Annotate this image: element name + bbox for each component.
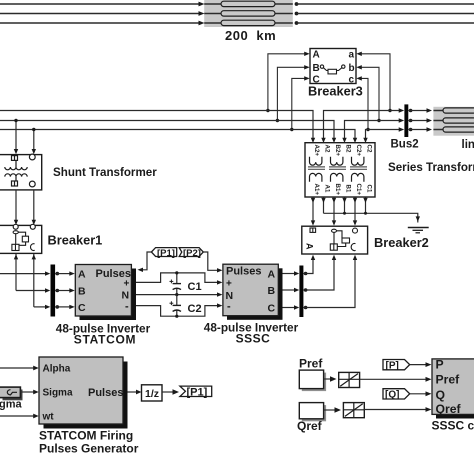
arrowhead below A1 (321, 198, 325, 203)
svg-text:Series Transformer: Series Transformer (388, 161, 474, 174)
wire Pref source to rate limiter (324, 378, 331, 380)
svg-text:+: + (226, 279, 232, 290)
bus bar left of STATCOM (51, 265, 56, 317)
svg-text:Alpha: Alpha (43, 364, 71, 375)
arrowhead into Breaker3 c (356, 76, 362, 80)
arrowhead below C1 (363, 198, 367, 203)
svg-text:A: A (78, 269, 86, 281)
wire B1 return to common (344, 197, 346, 213)
arrowhead into 200 km block port C (199, 21, 205, 26)
wire A1+ down to Breaker2 (312, 197, 314, 222)
wire DC neutral rail (136, 294, 218, 296)
arrowhead into shunt transformer C (32, 149, 36, 154)
svg-text:B1: B1 (345, 185, 352, 193)
junction dot Breaker3 B tap (276, 119, 279, 122)
wire sigma input (21, 391, 35, 393)
svg-text:A2+: A2+ (313, 145, 320, 157)
arrowhead into Breaker3 b (356, 65, 362, 69)
arrowhead into Breaker2 top C (353, 220, 357, 225)
node dot Bus2 line A (409, 109, 413, 113)
arrowhead into SSSC plus (217, 280, 223, 284)
svg-text:B: B (313, 63, 320, 74)
arrowhead into Breaker2 top B (332, 220, 336, 225)
arrowhead into Pref port (426, 377, 432, 382)
junction dot Breaker3 C tap (290, 128, 293, 131)
svg-text:Shunt Transformer: Shunt Transformer (53, 166, 157, 179)
block STATCOM Firing Pulses Generator (39, 357, 123, 424)
svg-text:Sigma: Sigma (43, 388, 73, 399)
wire 1/z to goto tag P1 (162, 391, 173, 393)
junction dot B1 on common (343, 212, 346, 215)
wire Pulses to 1/z (128, 391, 137, 393)
bus bar Bus2 (404, 104, 408, 137)
junction dot Breaker3 c tap (366, 128, 369, 131)
breaker Breaker3 body (310, 49, 356, 84)
arrowhead into 200 km block port B (199, 11, 205, 16)
wire wt input (0, 415, 34, 417)
arrowhead into 200 km block port A (199, 2, 205, 7)
svg-text:STATCOM: STATCOM (74, 332, 136, 346)
pill conductor C of right line block (443, 127, 474, 132)
junction dot C2 bottom (175, 315, 178, 318)
arrowhead up into Breaker2 bottom A (311, 255, 315, 260)
svg-text:C: C (268, 302, 276, 314)
Breaker2 internal switch symbol (330, 228, 357, 251)
svg-text:Qref: Qref (297, 419, 323, 433)
wire: phase B feeder into 200 km line (0, 13, 199, 15)
svg-text:Q: Q (436, 388, 445, 402)
drop shadow of SSSC control block (436, 363, 474, 419)
wire common neutral line to ground (324, 213, 418, 222)
wire alpha input (0, 367, 34, 369)
arrowhead into series transformer A2 (321, 138, 325, 143)
arrowhead into goto P1 (173, 389, 180, 394)
svg-text:A: A (305, 243, 315, 250)
arrowhead into SSSC minus (217, 303, 223, 307)
from tag [Q] (383, 389, 410, 401)
arrowhead into STATCOM Pulses (138, 268, 144, 272)
rate limiter 2 icon (343, 403, 364, 418)
svg-text:A: A (268, 269, 276, 281)
wire SSSC bar up to Breaker2 A (303, 259, 313, 274)
arrowhead up into Breaker2 bottom C (353, 255, 357, 260)
arrowhead into Qref port (426, 407, 432, 412)
drop shadow of 48-pulse Inverter SSSC (227, 268, 283, 320)
arrowhead into wt (33, 414, 39, 419)
shunt transformer winding row 1 (5, 167, 27, 170)
node dot Bus2 line B (409, 119, 413, 123)
source block Pref shadow (302, 373, 326, 392)
svg-text:200 km: 200 km (225, 28, 276, 43)
arrowhead into shunt transformer B (14, 149, 18, 154)
source block Qref (299, 403, 323, 419)
svg-text:b: b (349, 63, 355, 74)
arrowhead into Alpha (33, 366, 39, 371)
wire C1 return to common (365, 197, 367, 213)
svg-text:Breaker2: Breaker2 (374, 235, 429, 250)
shunt transformer winding lead top (15, 161, 17, 167)
arrowhead into series transformer A2+ (311, 138, 315, 143)
svg-text:SSSC co: SSSC co (432, 419, 474, 433)
wire Breaker3 b to line2 right (361, 67, 379, 120)
wire tap line2 down to shunt transformer port B (15, 121, 17, 151)
svg-text:-: - (125, 301, 129, 313)
arrowhead into series transformer C2 (363, 138, 367, 143)
capacitor C1 plates (173, 283, 181, 285)
from tag [P] (383, 360, 410, 372)
svg-text:SSSC: SSSC (236, 332, 271, 346)
svg-text:Breaker3: Breaker3 (308, 84, 363, 99)
arrowhead line C into left bus bar (45, 305, 50, 309)
wire bus line A into STATCOM bus (0, 273, 46, 275)
svg-text:line: line (462, 139, 474, 151)
Breaker1 port circle top-left (13, 224, 18, 229)
arrowhead SSSC A into bar (294, 271, 299, 275)
from tag [P1] (151, 248, 176, 259)
svg-text:C: C (78, 302, 86, 314)
svg-text:STATCOM Firing: STATCOM Firing (39, 429, 133, 443)
series transformer phase B windings and core (329, 157, 346, 182)
node dot on line C right of 200km block (295, 21, 299, 25)
junction dot on N rail (175, 293, 178, 296)
arrowhead SSSC B into bar (294, 288, 299, 292)
wire: phase C feeder into 200 km line (0, 22, 199, 24)
wire line3 right segment from C2 to Bus2 (366, 130, 400, 139)
svg-text:B: B (78, 286, 86, 298)
wire Bus2 to line block phase B (408, 120, 427, 122)
arrowhead into rate limiter 1 (330, 376, 337, 381)
arrowhead into series transformer C2+ (353, 138, 357, 143)
wire Breaker3 C to line3 (292, 78, 305, 129)
wire Breaker3 a to line1 right (361, 54, 390, 111)
wire Breaker3 B to line2 (277, 67, 305, 120)
wire through 200km block phase A (204, 3, 293, 5)
arrowhead into series transformer B2 (342, 138, 346, 143)
svg-text:A2: A2 (324, 145, 331, 153)
arrowhead into right line block B (427, 118, 433, 122)
wire bus bar to STATCOM A (55, 273, 70, 275)
breaker Breaker1 body (0, 225, 42, 253)
pill conductor A of right line block (443, 108, 474, 113)
svg-text:Pref: Pref (436, 373, 461, 387)
wire Qref source to rate limiter 2 (324, 409, 335, 411)
svg-text:P: P (436, 358, 444, 372)
block rate limiter 1 (339, 372, 360, 387)
Breaker3 internal switch symbol (320, 65, 345, 74)
arrowhead line A into left bus bar (45, 271, 50, 275)
arrowhead line B into left bus bar (45, 288, 50, 292)
wire line2 right segment from B2 to Bus2 (345, 121, 400, 139)
arrowhead into P port (426, 362, 432, 367)
series transformer top port labels A2+ A2 B2+ B2 C2+ C2 (rotated) (313, 145, 373, 157)
arrowhead up into Breaker1 bottom left (14, 254, 18, 259)
block 48-pulse Inverter SSSC (223, 264, 278, 316)
block SSSC control (432, 359, 474, 415)
svg-text:A: A (313, 50, 320, 61)
wire through 200km block phase C (204, 22, 293, 24)
arrowhead into STATCOM A (69, 271, 75, 275)
node dot on line B right of 200km block (295, 12, 299, 16)
shunt transformer port glyph B (split square) (12, 156, 18, 161)
arrowhead into rate limiter 2 (335, 407, 342, 412)
source block Pref (299, 370, 323, 389)
wire: phase B continues to right edge (297, 13, 474, 15)
arrowhead into Sigma (33, 390, 39, 395)
svg-text:+: + (124, 278, 130, 289)
goto tag [P1] bottom (180, 386, 212, 398)
svg-text:A1+: A1+ (313, 184, 320, 196)
wire: phase C continues to right edge (297, 22, 474, 24)
wire bus line C into STATCOM bus (34, 306, 46, 308)
series transformer phase A windings and core (308, 157, 325, 182)
svg-text:B1+: B1+ (334, 184, 341, 196)
svg-text:1/z: 1/z (145, 388, 159, 400)
drop shadow of STATCOM Firing Pulses Generator (44, 362, 128, 429)
svg-text:Qref: Qref (436, 402, 462, 416)
source block sigma (clipped at left edge) (0, 387, 20, 398)
wire SSSC A to bus bar (283, 273, 295, 275)
capacitor C2 plates (173, 304, 181, 306)
series transformer bottom port labels A1+ A1 B1+ B1 C1+ C1 (rotated) (313, 184, 373, 196)
arrowhead SSSC C into bar (294, 305, 299, 309)
node dot bus bar to STATCOM A (56, 272, 60, 276)
junction dot shunt B tap (14, 119, 17, 122)
junction dot Breaker3 a tap (388, 109, 391, 112)
ground symbol (408, 228, 429, 233)
wire A1 return to common (323, 197, 325, 213)
pill conductor B of right line block (443, 118, 474, 123)
junction dot C1 on common (364, 212, 367, 215)
arrowhead into Breaker3 B (304, 65, 310, 69)
wire: phase A continues to right edge (297, 3, 474, 5)
svg-text:gma: gma (0, 399, 23, 411)
svg-text:[P1]: [P1] (187, 387, 208, 399)
transformer Shunt Transformer body (0, 155, 42, 190)
wire from P tag to P port (410, 364, 426, 366)
arrowhead into ground (416, 216, 420, 221)
arrowhead into STATCOM B (69, 288, 75, 292)
wire from tag P1 to STATCOM Pulses (143, 252, 152, 270)
pill conductor B of 200km line (221, 11, 275, 16)
wire bus bar to STATCOM B (55, 290, 70, 292)
wire SSSC bar up to Breaker2 C (303, 259, 355, 308)
arrowhead into right line block A (427, 108, 433, 112)
svg-text:C1: C1 (366, 185, 373, 193)
arrowhead into SSSC Pulses (217, 268, 223, 272)
shunt transformer port glyph b (split square) (12, 181, 18, 186)
svg-text:Pulses: Pulses (88, 387, 123, 399)
arrowhead up into Breaker2 bottom B (332, 255, 336, 260)
sigma source icon (7, 390, 17, 395)
transformer Series Transformer body (305, 143, 375, 197)
wire Breaker3 A to line1 (268, 54, 305, 111)
wire C1+ down to Breaker2 (354, 197, 356, 222)
node dot bus bar to STATCOM C (56, 305, 60, 309)
arrowhead into Breaker2 top A (311, 220, 315, 225)
arrowhead into SSSC N (217, 292, 223, 296)
arrowhead line3 into Bus2 (399, 127, 405, 131)
wire SSSC B to bus bar (283, 289, 295, 291)
svg-text:C2: C2 (188, 303, 202, 315)
source block sigma (clipped at left edge) shadow (3, 390, 23, 401)
svg-text:a: a (349, 50, 355, 61)
arrowhead below C1+ (353, 198, 357, 203)
wire Breaker1 c down to bus line C (33, 254, 35, 307)
arrowhead into STATCOM C (69, 305, 75, 309)
wire SSSC bar up to Breaker2 B (303, 259, 334, 290)
shunt transformer winding lead bottom (15, 177, 17, 181)
svg-text:C2: C2 (366, 145, 373, 153)
wire Breaker1 b down to bus line B (15, 254, 17, 291)
wire Bus2 to line block phase A (408, 110, 427, 112)
wire through right line block phase B (433, 120, 474, 122)
arrowhead into Q port (426, 391, 432, 396)
capacitor C2 leads (176, 295, 178, 306)
svg-text:Pulses: Pulses (226, 266, 261, 278)
wire line2 left segment (phase B bus) (0, 121, 334, 139)
pill conductor A of 200km line (221, 1, 275, 6)
breaker Breaker2 body (302, 226, 368, 254)
arrowhead below B1 (342, 198, 346, 203)
wire from Q tag to Q port (410, 393, 426, 395)
block 48-pulse Inverter STATCOM (75, 265, 131, 317)
block unit delay 1/z (142, 385, 163, 401)
arrowhead line2 into Bus2 (399, 118, 405, 122)
svg-text:[P1]: [P1] (157, 248, 175, 259)
wire from tag P2 to SSSC Pulses (203, 252, 217, 270)
capacitor C1 leads (176, 273, 178, 284)
drop shadow of 48-pulse Inverter STATCOM (80, 269, 137, 321)
svg-text:[Q]: [Q] (385, 390, 399, 401)
capacitor C2 polarity plus (170, 301, 174, 305)
wire bus line B into STATCOM bus (16, 290, 46, 292)
wire rate limiter 2 to Qref port (364, 409, 426, 411)
svg-text:wt: wt (42, 412, 55, 423)
capacitor C1 polarity plus (170, 280, 174, 284)
svg-text:Pulses Generator: Pulses Generator (39, 442, 139, 456)
junction dot shunt C tap (32, 128, 35, 131)
source block Qref shadow (302, 405, 326, 421)
arrowhead into Breaker1 top left (14, 220, 18, 225)
svg-text:Breaker1: Breaker1 (48, 233, 103, 248)
goto tag [P2] (179, 248, 203, 259)
wire shunt c down to Breaker1 (33, 190, 35, 221)
svg-text:B: B (268, 285, 276, 297)
arrowhead into Breaker3 A (304, 52, 310, 56)
junction dot Breaker3 b tap (377, 119, 380, 122)
shunt transformer port glyph C (circle) (29, 154, 35, 160)
svg-text:C2+: C2+ (355, 145, 362, 157)
arrowhead into Breaker3 C (304, 76, 310, 80)
wire tap line3 down to shunt transformer port C (33, 130, 35, 151)
wire Bus2 to line block phase C (408, 129, 427, 131)
svg-text:C1: C1 (188, 281, 202, 293)
wire bus bar to STATCOM C (55, 306, 70, 308)
arrowhead below B1+ (332, 198, 336, 203)
wire DC plus rail (136, 273, 218, 283)
block second transmission line (clipped at right edge) (433, 107, 474, 136)
node dot SSSC bar A (304, 272, 308, 276)
shunt transformer port glyph c (circle) (29, 181, 35, 187)
block: 200 km distributed parameter line (204, 0, 293, 27)
wire line3 left segment (phase C bus) (0, 130, 355, 139)
wire DC minus rail (136, 306, 218, 317)
block rate limiter 2 (343, 403, 364, 418)
svg-text:Pref: Pref (299, 357, 323, 371)
arrowhead into right line block C (427, 127, 433, 131)
series transformer phase C windings and core (350, 157, 367, 182)
shunt transformer winding row 2 (5, 174, 27, 177)
arrowhead up into Breaker1 bottom right (32, 254, 36, 259)
arrowhead into series transformer B2+ (332, 138, 336, 143)
svg-text:B2+: B2+ (334, 145, 341, 157)
arrowhead into 1/z (136, 390, 142, 395)
node dot SSSC bar B (304, 288, 308, 292)
wire line1 left segment (phase A bus) (0, 111, 313, 139)
wire line1 right segment from A2 to Bus2 (324, 111, 400, 139)
svg-text:A1: A1 (324, 185, 331, 193)
arrowhead below A1+ (311, 198, 315, 203)
svg-text:[P]: [P] (386, 360, 399, 371)
node dot bus bar to STATCOM B (56, 289, 60, 293)
svg-text:-: - (227, 301, 231, 313)
pill conductor C of 200km line (221, 20, 275, 25)
node dot on line A right of 200km block (295, 2, 299, 6)
Breaker2 port glyph a (split square) (310, 228, 316, 232)
Breaker1 internal switch symbol (12, 231, 35, 251)
arrowhead into Breaker3 a (356, 52, 362, 56)
wire shunt b down to Breaker1 (15, 190, 17, 221)
junction dot Breaker3 A tap (266, 109, 269, 112)
wire through right line block phase A (433, 110, 474, 112)
node dot SSSC bar C (304, 306, 308, 310)
wire: phase A feeder into 200 km line (0, 3, 199, 5)
arrowhead into Breaker1 top right (32, 220, 36, 225)
svg-text:Bus2: Bus2 (391, 139, 419, 151)
wire Breaker3 c to line3 right (361, 78, 368, 129)
wire B1+ down to Breaker2 (333, 197, 335, 222)
junction dot C1 top (175, 271, 178, 274)
bus bar right of SSSC (299, 266, 303, 318)
wire through 200km block phase B (204, 13, 293, 15)
Breaker1 port circle top-right (30, 224, 35, 229)
svg-text:C1+: C1+ (355, 184, 362, 196)
wire through right line block phase C (433, 129, 474, 131)
wire rate limiter 1 to Pref port (360, 378, 426, 380)
wire SSSC C to bus bar (283, 307, 295, 309)
node dot Bus2 line C (409, 128, 413, 132)
arrowhead line1 into Bus2 (399, 108, 405, 112)
rate limiter 1 icon (339, 372, 360, 387)
svg-text:B2: B2 (345, 145, 352, 153)
svg-text:[P2]: [P2] (183, 248, 201, 259)
